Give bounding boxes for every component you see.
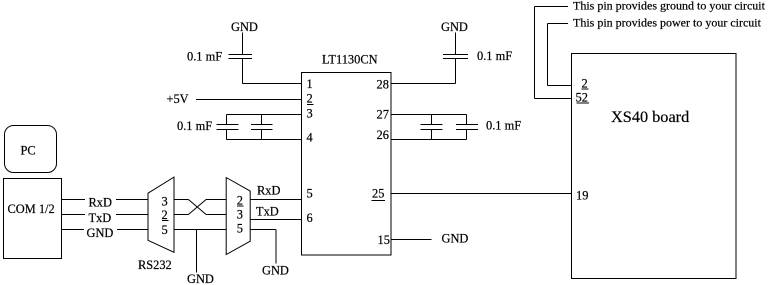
- wire pin5 row between connectors: [174, 229, 226, 231]
- svg-text:4: 4: [307, 131, 313, 145]
- svg-text:GND: GND: [262, 264, 289, 278]
- capacitor C6 plates: [456, 125, 478, 130]
- right cap network bottom rail pin26: [391, 139, 467, 141]
- COM 1/2 box: [4, 179, 62, 259]
- wire GND from COM: [62, 229, 148, 231]
- svg-text:25: 25: [372, 187, 384, 201]
- wire cap C4 to GND: [455, 33, 457, 55]
- svg-text:COM 1/2: COM 1/2: [8, 202, 55, 216]
- svg-text:2: 2: [582, 77, 588, 91]
- svg-text:TxD: TxD: [89, 211, 112, 225]
- svg-text:2: 2: [162, 208, 168, 222]
- svg-text:28: 28: [377, 78, 389, 92]
- svg-text:0.1 mF: 0.1 mF: [177, 119, 212, 133]
- J2 pin 2 underline: [237, 205, 244, 207]
- svg-text:6: 6: [307, 211, 313, 225]
- svg-text:27: 27: [377, 108, 389, 122]
- svg-text:3: 3: [307, 107, 313, 121]
- crossover wire 2 to 3: [174, 214, 188, 216]
- svg-text:19: 19: [576, 189, 588, 203]
- U1 pin 25 underline: [372, 200, 385, 202]
- wire RxD from COM: [62, 199, 148, 201]
- wire pin25 to board pin19: [391, 193, 571, 195]
- wire to ground left: [196, 230, 198, 273]
- svg-text:+5V: +5V: [167, 92, 189, 106]
- left cap network top rail pin3: [227, 114, 302, 116]
- svg-text:2: 2: [237, 194, 243, 208]
- svg-text:5: 5: [307, 187, 313, 201]
- svg-text:52: 52: [576, 91, 588, 105]
- svg-text:XS40 board: XS40 board: [611, 107, 689, 126]
- J1 pin 2 underline: [162, 220, 169, 222]
- svg-text:0.1 mF: 0.1 mF: [187, 50, 222, 64]
- crossover wire 3 to 2: [174, 199, 188, 201]
- svg-text:PC: PC: [21, 144, 36, 158]
- capacitor C4 plates: [443, 55, 468, 59]
- right cap network top rail pin27: [391, 114, 467, 116]
- svg-text:26: 26: [377, 128, 389, 142]
- svg-text:RS232: RS232: [138, 258, 172, 272]
- capacitor C3 plates: [251, 125, 273, 130]
- svg-text:3: 3: [162, 195, 168, 209]
- svg-text:GND: GND: [441, 20, 468, 34]
- svg-text:This pin provides power to you: This pin provides power to your circuit: [573, 16, 762, 30]
- connector J1 RS232 DB9 left: [148, 177, 174, 252]
- wire +5V to pin2: [196, 99, 301, 101]
- wire pin28 to cap C4: [391, 59, 456, 84]
- svg-text:5: 5: [162, 223, 168, 237]
- svg-text:TxD: TxD: [256, 205, 279, 219]
- svg-text:1: 1: [307, 77, 313, 91]
- capacitor C3 branch: [260, 115, 262, 140]
- svg-text:RxD: RxD: [257, 184, 280, 198]
- svg-text:5: 5: [237, 222, 243, 236]
- capacitor C5 branch: [431, 115, 433, 140]
- svg-text:0.1 mF: 0.1 mF: [477, 49, 512, 63]
- svg-text:GND: GND: [87, 226, 114, 240]
- PC box: [5, 126, 57, 173]
- U1 pin 2 underline: [307, 104, 314, 106]
- svg-text:GND: GND: [231, 20, 258, 34]
- wire TxD from COM: [62, 214, 148, 216]
- svg-text:LT1130CN: LT1130CN: [322, 53, 378, 67]
- wire RxD to chip pin5: [250, 199, 301, 201]
- capacitor C5 plates: [421, 125, 443, 130]
- svg-text:This pin provides ground to yo: This pin provides ground to your circuit: [573, 0, 766, 13]
- left cap network bottom rail pin4: [227, 139, 302, 141]
- wire TxD to chip pin6: [250, 219, 301, 221]
- capacitor C2 plates: [217, 125, 239, 130]
- bracket wire power annotation to pin2: [548, 24, 572, 86]
- svg-text:3: 3: [237, 208, 243, 222]
- wire pin15 to GND: [391, 239, 432, 241]
- capacitor C6 branch: [466, 115, 468, 140]
- capacitor C2 branch: [226, 115, 228, 140]
- svg-text:GND: GND: [442, 232, 469, 246]
- board pin 52 underline: [577, 102, 589, 104]
- svg-text:2: 2: [307, 92, 313, 106]
- IC U1 LT1130CN box: [302, 73, 392, 256]
- svg-text:0.1 mF: 0.1 mF: [486, 119, 521, 133]
- svg-text:RxD: RxD: [89, 196, 112, 210]
- wire pin1 to cap C1: [243, 59, 302, 84]
- XS40 board box: [572, 54, 737, 279]
- capacitor C1 plates: [229, 55, 253, 59]
- bracket wire ground annotation to pin52: [535, 7, 572, 99]
- wire cap C1 to GND: [242, 33, 244, 55]
- svg-text:15: 15: [378, 233, 390, 247]
- board pin 2 underline: [582, 88, 589, 90]
- wire J2 pin5 to ground: [250, 230, 276, 264]
- connector J2 DB9 right: [226, 178, 250, 255]
- svg-text:GND: GND: [187, 272, 214, 285]
